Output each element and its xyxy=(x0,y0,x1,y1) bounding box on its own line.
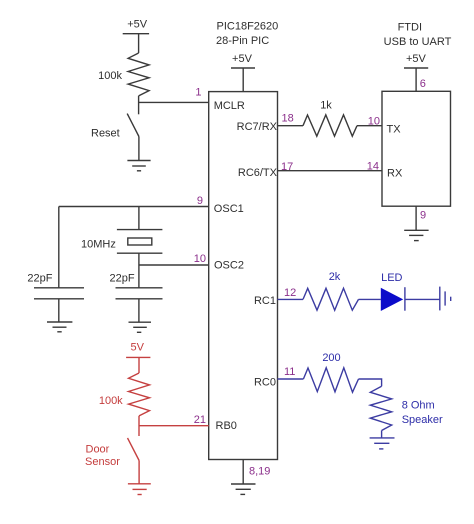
svg-text:TX: TX xyxy=(387,124,402,136)
pin label RC0 pin 11 xyxy=(254,366,295,389)
svg-text:2k: 2k xyxy=(329,271,341,283)
LED D1 xyxy=(381,272,405,311)
svg-text:RC1: RC1 xyxy=(254,295,276,307)
svg-text:100k: 100k xyxy=(99,395,123,407)
pin label RX pin 14 xyxy=(367,160,403,179)
wire switch to ground xyxy=(138,137,140,161)
wire R4 to speaker top xyxy=(359,379,382,386)
pin 9 ground stub FTDI xyxy=(416,206,426,230)
wire C1 to ground xyxy=(58,299,60,322)
wire C2 to ground xyxy=(138,299,140,322)
pin label TX pin 10 xyxy=(368,115,401,135)
switch Door Sensor xyxy=(85,438,139,468)
resistor R5 100k door pull-up xyxy=(99,373,150,416)
IC U2 FTDI USB to UART xyxy=(382,22,452,207)
svg-text:21: 21 xyxy=(194,414,206,426)
svg-text:9: 9 xyxy=(420,210,426,222)
svg-text:PIC18F2620: PIC18F2620 xyxy=(217,21,279,33)
power +5V PIC xyxy=(231,53,255,92)
svg-text:OSC2: OSC2 xyxy=(214,259,244,271)
power +5V FTDI pin 6 xyxy=(404,53,428,91)
wire crystal bottom to OSC2 node xyxy=(138,253,140,265)
ground C2 xyxy=(129,322,152,332)
ground FTDI xyxy=(404,230,428,240)
wire RC6/TX pin 17 to FTDI RX pin 14 xyxy=(278,170,383,172)
svg-text:28-Pin PIC: 28-Pin PIC xyxy=(216,35,269,47)
svg-text:10: 10 xyxy=(194,253,206,265)
svg-text:9: 9 xyxy=(197,195,203,207)
wire LED cathode to ground xyxy=(405,298,440,300)
wire OSC2 pin 10 xyxy=(139,264,209,266)
svg-text:RX: RX xyxy=(387,168,403,180)
svg-text:Reset: Reset xyxy=(91,128,120,140)
svg-text:OSC1: OSC1 xyxy=(214,203,244,215)
power +5V reset pull-up xyxy=(123,18,149,33)
wire R1 bottom to node MCLR xyxy=(138,96,140,114)
IC U1 PIC18F2620 xyxy=(209,21,279,460)
svg-text:+5V: +5V xyxy=(232,53,253,65)
wire R2 to FTDI TX pin 10 xyxy=(357,125,382,127)
wire node to RB0 pin 21 xyxy=(139,425,209,427)
pin label MCLR pin 1 xyxy=(195,87,245,113)
svg-text:22pF: 22pF xyxy=(27,272,52,284)
svg-text:+5V: +5V xyxy=(406,53,427,65)
svg-text:12: 12 xyxy=(284,287,296,299)
svg-text:RC0: RC0 xyxy=(254,377,276,389)
crystal Y1 10MHz xyxy=(81,230,162,254)
ground reset xyxy=(127,161,150,171)
wire RC7/RX pin 18 to R2 xyxy=(278,125,304,127)
ground C1 xyxy=(47,322,72,332)
pin label OSC2 pin 10 xyxy=(194,253,244,271)
svg-text:1: 1 xyxy=(195,87,201,99)
wire +5V to R1 top xyxy=(138,34,140,53)
power 5V door sensor xyxy=(126,342,150,358)
svg-text:LED: LED xyxy=(381,272,402,284)
wire node to MCLR pin 1 xyxy=(139,101,209,103)
pin label RC1 pin 12 xyxy=(254,287,296,307)
svg-text:MCLR: MCLR xyxy=(214,100,245,112)
svg-text:10: 10 xyxy=(368,115,380,127)
svg-text:Door: Door xyxy=(86,444,110,456)
svg-text:10MHz: 10MHz xyxy=(81,238,116,250)
svg-text:22pF: 22pF xyxy=(110,272,135,284)
svg-text:RC7/RX: RC7/RX xyxy=(237,121,278,133)
svg-text:5V: 5V xyxy=(130,342,144,354)
svg-text:Sensor: Sensor xyxy=(85,456,120,468)
wire R3 to LED anode xyxy=(359,298,381,300)
resistor R3 2k xyxy=(303,271,359,310)
wire crystal top xyxy=(138,207,140,230)
ground PIC xyxy=(231,484,256,494)
pin label RC6/TX pin 17 xyxy=(238,161,293,179)
svg-text:11: 11 xyxy=(284,366,295,378)
svg-text:18: 18 xyxy=(282,113,294,125)
svg-text:8 Ohm: 8 Ohm xyxy=(402,399,435,411)
resistor R4 200 xyxy=(303,352,358,392)
svg-text:6: 6 xyxy=(420,78,426,90)
ground door sensor xyxy=(128,484,151,495)
wire speaker to ground xyxy=(381,431,383,438)
pin label OSC1 pin 9 xyxy=(197,195,244,215)
svg-text:Speaker: Speaker xyxy=(402,414,443,426)
capacitor C1 22pF xyxy=(27,272,84,299)
svg-text:RC6/TX: RC6/TX xyxy=(238,167,278,179)
wire switch to ground xyxy=(138,461,140,484)
pin label RB0 pin 21 xyxy=(194,414,237,432)
capacitor C2 22pF xyxy=(110,272,163,299)
svg-text:8,19: 8,19 xyxy=(249,465,270,477)
svg-text:100k: 100k xyxy=(98,70,122,82)
wire OSC1 down to C1 xyxy=(58,207,60,288)
wire RC1 pin 12 to R3 xyxy=(278,298,304,300)
svg-text:FTDI: FTDI xyxy=(398,22,422,34)
wire RC0 pin 11 to R4 xyxy=(278,378,304,380)
svg-text:1k: 1k xyxy=(320,100,332,112)
wire OSC2 node down to C2 xyxy=(138,265,140,288)
switch Reset xyxy=(91,114,139,140)
resistor R2 1k xyxy=(303,100,357,137)
speaker LS1 8 Ohm xyxy=(370,386,443,430)
ground LED sideways xyxy=(440,287,451,311)
wire OSC1 pin 9 to crystal column xyxy=(59,206,209,208)
wire 5V to R5 xyxy=(138,357,140,373)
ground speaker xyxy=(370,438,395,449)
pin 8,19 ground stub PIC xyxy=(243,460,270,485)
svg-text:+5V: +5V xyxy=(127,18,148,30)
pin label RC7/RX pin 18 xyxy=(237,113,294,134)
svg-text:14: 14 xyxy=(367,160,379,172)
resistor R1 100k reset pull-up xyxy=(98,53,149,96)
svg-text:RB0: RB0 xyxy=(216,420,237,432)
svg-text:USB to UART: USB to UART xyxy=(384,36,452,48)
svg-text:200: 200 xyxy=(322,352,340,364)
wire R5 bottom to node RB0 xyxy=(138,416,140,436)
